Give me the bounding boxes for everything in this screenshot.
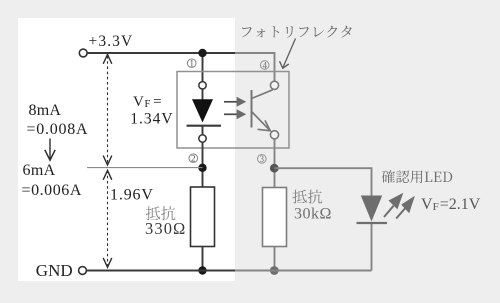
LED D2 emission arrow 1 xyxy=(384,206,394,217)
wire: R2 to GND rail xyxy=(274,247,276,271)
wire: branch pin3 to indicator LED xyxy=(275,168,372,196)
wire: pin3 to resistor R2 xyxy=(274,139,276,188)
dim arrowhead down at node xyxy=(103,156,112,165)
label teiko (resistor) R1 xyxy=(146,206,176,220)
photoreflector box U1 xyxy=(177,72,289,149)
pin 1 circle xyxy=(199,82,206,89)
LED D1 cathode bar xyxy=(187,125,222,127)
terminal +3.3V xyxy=(79,49,87,57)
pointer arrow from katakana label to box xyxy=(283,39,296,68)
indicator LED D2 cathode bar xyxy=(357,222,388,224)
svg-text:2: 2 xyxy=(191,154,196,164)
terminal GND xyxy=(79,267,87,275)
label photoreflector (katakana) xyxy=(242,26,352,38)
pin label 3 xyxy=(258,155,267,164)
svg-text:GND: GND xyxy=(36,261,73,280)
wire: LED D2 to GND rail xyxy=(371,224,373,271)
pin 4 circle xyxy=(270,81,278,89)
IR emission arrow lower xyxy=(224,113,238,115)
dimension dashed line top segment (3.3V to 1.96V node) xyxy=(107,56,109,164)
wire: pin1 circle to LED anode xyxy=(202,89,204,101)
resistor R1 330ohm body xyxy=(191,187,215,247)
label kakunin-you LED xyxy=(382,170,452,183)
label teiko (resistor) R2 xyxy=(293,190,323,204)
reference level line 1.96V xyxy=(87,167,203,169)
svg-text:VF=2.1V: VF=2.1V xyxy=(421,196,481,213)
svg-text:=0.008A: =0.008A xyxy=(27,121,89,138)
LED D2 emission arrow 2 xyxy=(396,208,406,219)
svg-text:+3.3V: +3.3V xyxy=(89,33,134,50)
wire: pin1 drop xyxy=(202,53,204,82)
wire: LED cathode to pin2 circle xyxy=(202,126,204,135)
wire: +3.3V rail (dark segment) xyxy=(88,52,236,54)
GND rail dark segment xyxy=(87,270,235,272)
junction R2/GND rail xyxy=(270,266,279,275)
pin 2 circle xyxy=(199,135,206,142)
svg-text:=0.006A: =0.006A xyxy=(22,182,82,199)
svg-text:1.96V: 1.96V xyxy=(110,186,154,203)
dim arrowhead up at rail xyxy=(103,54,112,63)
phototransistor Q1 base bar xyxy=(251,90,253,128)
svg-text:30kΩ: 30kΩ xyxy=(294,205,332,222)
pin label 2 xyxy=(189,154,198,163)
pin label 4 xyxy=(260,61,269,70)
dimension dashed line bottom segment (node to GND) xyxy=(107,171,109,267)
dim arrowhead down at GND xyxy=(103,258,112,267)
LED D1 (infrared) anode triangle xyxy=(192,99,213,122)
current change arrow xyxy=(49,139,51,159)
svg-text:8mA: 8mA xyxy=(29,102,62,119)
wire: R1 to GND rail xyxy=(202,247,204,271)
phototransistor collector line xyxy=(252,90,273,99)
svg-text:3: 3 xyxy=(260,154,265,164)
svg-text:330Ω: 330Ω xyxy=(145,219,186,238)
GND rail gray segment xyxy=(235,270,372,272)
svg-text:1: 1 xyxy=(189,59,194,69)
pin 3 circle xyxy=(270,131,278,139)
indicator LED D2 triangle xyxy=(361,196,382,222)
svg-text:6mA: 6mA xyxy=(23,162,56,179)
svg-text:4: 4 xyxy=(262,60,267,70)
pin label 1 xyxy=(187,59,196,68)
IR emission arrow upper xyxy=(224,101,238,103)
phototransistor emitter line with arrow xyxy=(252,112,271,131)
junction at +3.3V rail / pin1 xyxy=(198,49,206,57)
wire: pin2 to resistor R1 xyxy=(202,142,204,187)
white schematic area xyxy=(18,18,235,281)
junction node 1.96V xyxy=(198,164,206,172)
wire: +3.3V rail (gray segment to pin 4) xyxy=(235,53,275,82)
resistor R2 30k body xyxy=(263,188,287,247)
svg-text:1.34V: 1.34V xyxy=(130,111,173,128)
junction R1/GND rail xyxy=(198,266,206,274)
dim arrowhead up at node xyxy=(103,170,112,179)
junction node pin3 xyxy=(270,164,279,173)
